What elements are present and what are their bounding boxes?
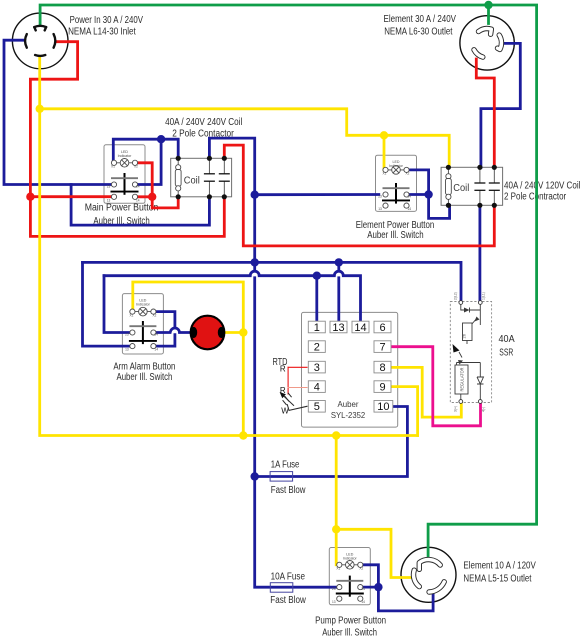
switch S1 Main Power Button: body <box>104 145 145 204</box>
svg-text:Indicator: Indicator <box>389 164 404 168</box>
wire yellow: top bus to K2 coil top <box>40 109 450 168</box>
outlet J3 neutral slot left <box>413 570 419 586</box>
switch S3 Arm Alarm Button: LED indicator lamp <box>132 307 153 316</box>
controller U1 Auber SYL-2352: body <box>302 312 398 427</box>
svg-text:NEMA L5-15 Outlet: NEMA L5-15 Outlet <box>463 574 531 585</box>
switch S3 Arm Alarm Button: terminal 23 <box>130 330 135 335</box>
switch S2 Element Power Button: terminal X2 <box>404 167 409 172</box>
switch S3 Arm Alarm Button: terminal 14 <box>151 344 156 349</box>
switch S3 Arm Alarm Button: actuator bars <box>142 321 144 344</box>
svg-text:3(+): 3(+) <box>454 406 458 412</box>
U1 terminal 4 <box>308 381 325 393</box>
wire blue: down to 10A fuse to S4-23 <box>255 477 338 588</box>
svg-text:4(-): 4(-) <box>482 407 486 412</box>
U1 terminal 1 <box>308 321 325 333</box>
outlet J2 hot slot right <box>498 35 502 49</box>
switch S2 Element Power Button: terminal 23 <box>383 192 388 197</box>
node junction F (S1 X2/14) <box>148 193 156 201</box>
svg-text:Power In 30 A / 240V: Power In 30 A / 240V <box>70 15 144 26</box>
svg-text:14: 14 <box>136 198 140 202</box>
wire yellow: alarm right terminal to node G <box>221 331 243 334</box>
outlet J3 NEMA L5-15: body circle <box>401 547 456 602</box>
svg-text:X1: X1 <box>383 172 387 176</box>
contactor K1 40A 240V-coil: terminal bottom x=224.3 <box>222 194 227 199</box>
svg-text:23: 23 <box>125 333 129 337</box>
wire blue: node D to L5-15 neutral <box>378 587 433 611</box>
wire blue: S4-X2 to node D <box>360 565 378 587</box>
node junction G (alarm) <box>239 328 247 336</box>
switch S1 Main Power Button: terminal 23 <box>111 182 116 187</box>
wire blue: line2 left end down to S3-23 <box>104 276 131 333</box>
svg-text:23: 23 <box>332 587 336 591</box>
contactor K1 40A 240V-coil: contact 1 <box>204 158 215 197</box>
node junction A (S1 X1/24) <box>157 135 165 143</box>
svg-text:SYL-2352: SYL-2352 <box>331 410 366 420</box>
U1 terminal 10 <box>374 401 393 413</box>
wire green branch: to L6-30 outlet ground <box>487 5 490 24</box>
contactor K2 40A 120V-coil: contact 2 <box>489 167 500 205</box>
switch S1 Main Power Button: actuator bars <box>124 173 126 195</box>
switch S4 Pump Power Button: actuator bars <box>349 576 351 597</box>
wire magenta: U1-7 to SSR terminal 4 <box>392 347 481 426</box>
fuse F1 1A fast blow <box>270 472 293 482</box>
wire blue: S2-24 to node C <box>407 193 429 196</box>
switch S1 Main Power Button: terminal 13 <box>111 194 116 199</box>
svg-text:Indicator: Indicator <box>343 557 358 561</box>
contactor K1 40A 240V-coil: body <box>171 158 232 197</box>
contactor K2 40A 120V-coil: coil element <box>446 167 452 205</box>
outlet J2 NEMA L6-30: body circle <box>460 16 514 70</box>
contactor K2 40A 120V-coil: terminal bottom x=494.3 <box>492 203 497 208</box>
contactor K1 40A 240V-coil: coil element <box>175 158 181 197</box>
wire yellow: node H to L5-15 hot <box>336 529 411 577</box>
svg-text:1: 1 <box>314 322 320 334</box>
wire blue: K2 contact1 bottom to SSR terminal 1 <box>478 205 481 301</box>
contactor K2 40A 120V-coil: terminal top x=448.4 <box>446 165 451 170</box>
U1 terminal 2 <box>308 341 325 353</box>
U1 terminal 9 <box>374 381 391 393</box>
wire blue: L6-30 hot to K2 contact1 top <box>481 43 520 167</box>
wire yellow: node G up over to S3-X1 <box>133 282 244 333</box>
svg-text:X1: X1 <box>129 313 133 317</box>
wire red: node E to S1-13 <box>30 195 114 198</box>
outlet J2 hot slot lower-left <box>474 50 483 57</box>
SSR U2 40A: body (dashed) <box>450 302 491 403</box>
wire blue: S4-24 to node D <box>360 586 378 589</box>
svg-text:1(L1): 1(L1) <box>482 292 486 300</box>
U1 terminal 8 <box>374 361 391 373</box>
svg-text:X1: X1 <box>111 165 115 169</box>
node green junction at top <box>484 1 492 9</box>
svg-text:13: 13 <box>125 348 129 352</box>
wire red: node E to K1 contact2 bottom <box>30 197 224 237</box>
switch S1 Main Power Button: terminal 14 <box>132 194 137 199</box>
node junction line2/U1-1 <box>313 272 321 280</box>
wire blue: K1 contact1 top to node B and bus down <box>209 138 254 262</box>
wire red: RTD lead R to U1-3 <box>288 366 307 368</box>
svg-text:SSR: SSR <box>499 347 513 358</box>
svg-text:X2: X2 <box>152 313 156 317</box>
inlet J1 ground pin <box>34 26 46 27</box>
switch S2 Element Power Button: terminal 24 <box>404 192 409 197</box>
wire blue: node B to S2-23 <box>255 193 379 196</box>
switch S2 Element Power Button: body <box>376 155 417 211</box>
switch S1 Main Power Button: terminal X2 <box>132 160 137 165</box>
wire blue: S2-X2 to node C <box>407 170 429 195</box>
switch S4 Pump Power Button: terminal X2 <box>358 562 363 567</box>
wire yellow: node H to S4-X1 <box>335 529 338 565</box>
svg-text:23: 23 <box>107 185 111 189</box>
svg-text:Auber: Auber <box>338 399 359 409</box>
inlet J1 bottom pin <box>35 54 45 57</box>
contactor K1 40A 240V-coil: contact 2 <box>219 158 230 197</box>
SSR U2: internal circuit <box>457 305 484 400</box>
svg-text:X2: X2 <box>406 172 410 176</box>
svg-text:1A Fuse: 1A Fuse <box>271 459 300 470</box>
svg-text:Indicator: Indicator <box>118 154 133 158</box>
switch S1 Main Power Button: terminal X1 <box>111 160 116 165</box>
svg-text:Coil: Coil <box>453 183 469 194</box>
svg-text:24: 24 <box>361 587 365 591</box>
node junction line1/bus <box>251 258 259 266</box>
wire blue: U1-10 through 1A fuse to bus node <box>255 407 408 477</box>
contactor K2 40A 120V-coil: body <box>441 167 503 205</box>
switch S3 Arm Alarm Button: terminal 13 <box>130 344 135 349</box>
outlet J3 ground slot <box>419 560 440 570</box>
contactor K1 40A 240V-coil: terminal top x=224.3 <box>222 156 227 161</box>
svg-text:3: 3 <box>314 362 320 374</box>
switch S1 Main Power Button: terminal 24 <box>132 182 137 187</box>
wire blue branch: line1 down (above hop) <box>337 262 340 270</box>
switch S2 Element Power Button: terminal 13 <box>383 203 388 208</box>
wire yellow: U1-8 to SSR terminal 3 <box>392 367 461 417</box>
alarm BZ1 terminal left <box>190 327 197 338</box>
U1 terminal 5 <box>308 401 325 413</box>
switch S3 Arm Alarm Button: body <box>122 294 163 354</box>
svg-text:14: 14 <box>361 600 365 604</box>
switch S3 Arm Alarm Button: terminal X2 <box>151 309 156 314</box>
svg-text:9: 9 <box>379 382 385 394</box>
svg-text:10: 10 <box>377 401 389 413</box>
switch S4 Pump Power Button: terminal 14 <box>358 596 363 601</box>
svg-text:40A: 40A <box>499 334 515 345</box>
contactor K1 40A 240V-coil: terminal bottom x=178.2 <box>176 194 181 199</box>
U1 terminal 6 <box>374 321 391 333</box>
node junction B <box>251 191 259 199</box>
wire blue line2: to U1 terminal 14 <box>343 276 360 321</box>
wire red: K1 contact2 top to K2 contact2 bottom <box>224 145 494 246</box>
switch S2 Element Power Button: LED indicator lamp <box>386 166 407 175</box>
wire blue: S3-X2 link down (above hop) <box>153 312 175 328</box>
outlet J3 hot slot bottom <box>429 582 444 592</box>
node junction bottom bus 1 <box>239 431 247 439</box>
switch S4 Pump Power Button: terminal X1 <box>337 562 342 567</box>
wire red: S1-X2 to node F <box>135 163 152 197</box>
svg-text:13: 13 <box>107 198 111 202</box>
svg-text:Pump Power Button: Pump Power Button <box>315 615 386 626</box>
wire blue line1: S3-13 bus to SSR terminal 2 <box>83 262 462 301</box>
svg-text:Auber Ill. Switch: Auber Ill. Switch <box>367 230 423 241</box>
svg-text:14: 14 <box>154 348 158 352</box>
SSR U2: cursor arrow artifact <box>453 344 460 353</box>
wire red: node F to K1 coil bottom <box>152 197 178 208</box>
contactor K1 40A 240V-coil: terminal top x=209.4 <box>207 156 212 161</box>
wire blue: node C to K2 coil bottom <box>429 195 450 219</box>
wire yellow: inlet neutral down <box>38 57 41 109</box>
RTD sensor symbol (variable resistance + arrow) <box>282 393 294 411</box>
svg-text:40A / 240V 240V Coil: 40A / 240V 240V Coil <box>165 117 242 128</box>
svg-text:2: 2 <box>314 342 320 354</box>
wire red: S1-14 to node F <box>136 195 152 198</box>
wire red: inlet hot stair-step down <box>30 42 77 197</box>
wire blue: S1-X1 up to K1 coil top <box>113 139 178 163</box>
svg-text:4: 4 <box>314 382 320 394</box>
svg-text:NEMA L14-30 Inlet: NEMA L14-30 Inlet <box>68 26 136 37</box>
U1 terminal 13 <box>330 321 347 333</box>
svg-text:5: 5 <box>314 401 320 413</box>
svg-text:REGULATOR: REGULATOR <box>460 368 465 392</box>
svg-text:Coil: Coil <box>184 175 200 186</box>
svg-text:R: R <box>280 364 286 373</box>
contactor K2 40A 120V-coil: contact 1 <box>474 167 485 205</box>
U1 terminal 7 <box>374 341 391 353</box>
svg-text:Fast Blow: Fast Blow <box>271 485 306 496</box>
wire blue branch: to K1 contact1 bottom <box>71 185 209 226</box>
svg-text:2(L2): 2(L2) <box>454 292 458 300</box>
wire hop S3-24 wire over X2-14 link <box>170 328 179 332</box>
wire blue: inlet N/hot to S1-23 <box>4 40 114 184</box>
svg-text:23: 23 <box>378 195 382 199</box>
contactor K2 40A 120V-coil: terminal bottom x=448.4 <box>446 203 451 208</box>
svg-text:40A / 240V 120V Coil: 40A / 240V 120V Coil <box>504 180 580 191</box>
svg-text:Fast Blow: Fast Blow <box>270 595 306 606</box>
switch S3 Arm Alarm Button: terminal X1 <box>130 309 135 314</box>
wire blue: S1-24 to node A <box>135 139 161 184</box>
inlet J1 left pin <box>25 34 27 48</box>
svg-text:Arm Alarm Button: Arm Alarm Button <box>113 361 175 372</box>
wire blue: to alarm left terminal <box>180 331 194 334</box>
switch S4 Pump Power Button: body <box>329 548 370 605</box>
node junction H (pump) <box>332 525 340 533</box>
switch S1 Main Power Button: LED indicator lamp <box>114 159 135 168</box>
SSR U2: regulator <box>455 365 468 394</box>
svg-text:Main Power Button: Main Power Button <box>85 203 159 214</box>
svg-text:X1: X1 <box>336 567 340 571</box>
wire blue: link to S3-14 <box>155 335 175 347</box>
node junction bottom bus 2 <box>332 431 340 439</box>
wire blue branch: to U1 terminal 13 <box>337 278 340 321</box>
alarm buzzer BZ1 <box>191 316 225 350</box>
node junction line1/U1-13 <box>335 258 343 266</box>
switch S4 Pump Power Button: terminal 23 <box>337 585 342 590</box>
node junction C (S2 X2/24) <box>424 190 432 198</box>
SSR U2: terminals <box>459 301 463 305</box>
wire hop line2 over blue bus <box>250 271 259 276</box>
switch S2 Element Power Button: terminal X1 <box>383 167 388 172</box>
svg-text:26: 26 <box>462 333 467 338</box>
svg-text:24: 24 <box>136 185 140 189</box>
node junction E (inlet hot) <box>26 193 34 201</box>
contactor K2 40A 120V-coil: terminal top x=479.9 <box>477 165 482 170</box>
contactor K2 40A 120V-coil: terminal bottom x=479.9 <box>477 203 482 208</box>
wire yellow: left bus down and bottom bus <box>40 109 418 436</box>
svg-text:X2: X2 <box>359 567 363 571</box>
U1 terminal 3 <box>308 361 325 373</box>
wire hop line2 over U1-13 wire <box>334 271 343 276</box>
outlet J2 ground slot <box>479 29 492 35</box>
wire blue bus: below hop down to 1A fuse node <box>253 278 256 477</box>
wire blue line2: segment a <box>104 274 250 277</box>
node junction inlet neutral <box>36 105 44 113</box>
wire red: RTD lead down <box>287 367 289 394</box>
alarm BZ1 terminal right <box>218 327 225 338</box>
inlet J1 right pin <box>54 34 56 48</box>
svg-text:24: 24 <box>408 195 412 199</box>
wire yellow branch: to S2-X1 <box>383 135 386 170</box>
svg-text:X2: X2 <box>134 165 138 169</box>
wire yellow: node G down to bottom bus <box>242 333 245 436</box>
contactor K2 40A 120V-coil: terminal top x=494.3 <box>492 165 497 170</box>
svg-text:Auber Ill. Switch: Auber Ill. Switch <box>322 628 377 639</box>
svg-text:10A Fuse: 10A Fuse <box>271 571 306 582</box>
switch S4 Pump Power Button: LED indicator lamp <box>339 561 360 570</box>
U1 terminal 14 <box>352 321 369 333</box>
wire blue: S3-24 toward alarm <box>155 331 170 334</box>
svg-text:Auber Ill. Switch: Auber Ill. Switch <box>117 372 173 383</box>
switch S4 Pump Power Button: terminal 24 <box>358 585 363 590</box>
wire red: L6-30 hot to K2 contact2 top <box>476 59 494 167</box>
svg-text:13: 13 <box>378 207 382 211</box>
fuse F2 10A fast blow <box>270 583 293 593</box>
wire blue branch: line2 to U1 terminal 1 <box>315 276 318 321</box>
svg-text:Element 10 A / 120V: Element 10 A / 120V <box>463 561 536 572</box>
node junction bus/1A fuse <box>251 472 259 480</box>
svg-text:Indicator: Indicator <box>136 303 151 307</box>
svg-text:24: 24 <box>154 333 158 337</box>
wire yellow: bottom bus down to node H <box>335 436 338 530</box>
inlet J1 NEMA L14-30: body circle <box>12 13 68 69</box>
switch S4 Pump Power Button: terminal 13 <box>337 596 342 601</box>
wire red-light: RTD lead R to U1-4 <box>288 387 307 389</box>
node junction yellow top/S2-X1 <box>380 131 388 139</box>
wire blue: line1 left end down to S3-13 <box>83 262 132 346</box>
svg-text:14: 14 <box>354 322 366 334</box>
svg-text:6: 6 <box>379 322 385 334</box>
switch S2 Element Power Button: terminal 14 <box>404 203 409 208</box>
svg-text:NEMA L6-30 Outlet: NEMA L6-30 Outlet <box>384 26 452 37</box>
wire green: inlet ground to L5-15 outlet ground <box>40 5 536 560</box>
svg-text:8: 8 <box>379 362 385 374</box>
switch S2 Element Power Button: actuator bars <box>395 183 397 204</box>
switch S3 Arm Alarm Button: terminal 24 <box>151 330 156 335</box>
wire yellow: U1-9 down to bottom bus <box>392 387 418 436</box>
svg-text:7: 7 <box>379 342 385 354</box>
svg-text:13: 13 <box>332 322 344 334</box>
svg-text:14: 14 <box>408 207 412 211</box>
node junction D (S4) <box>374 583 382 591</box>
svg-text:13: 13 <box>332 600 336 604</box>
contactor K1 40A 240V-coil: terminal top x=178.2 <box>176 156 181 161</box>
wire black: RTD lead W to U1-5 <box>289 406 307 410</box>
wire blue bus: node B down (above hop) <box>253 262 256 270</box>
contactor K1 40A 240V-coil: terminal bottom x=209.4 <box>207 194 212 199</box>
wire blue line2: segment b <box>259 274 334 277</box>
svg-text:Element 30 A / 240V: Element 30 A / 240V <box>384 14 457 25</box>
